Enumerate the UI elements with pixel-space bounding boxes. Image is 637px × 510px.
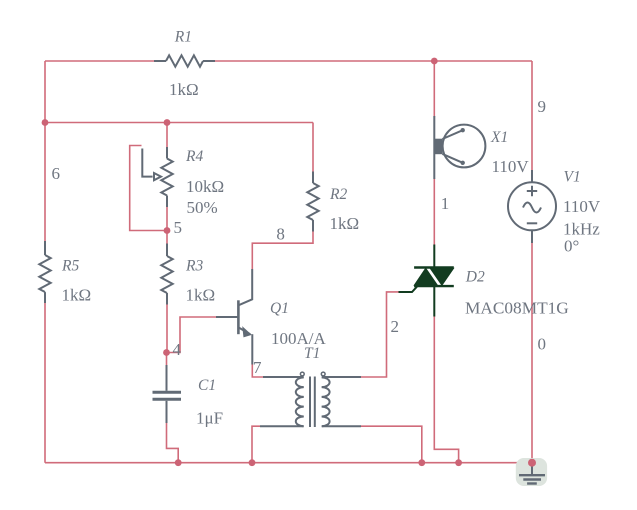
svg-text:T1: T1 [304,345,320,362]
wire C1 bottom to bus [167,422,179,463]
transformer T1 [260,372,361,427]
wire R4 wiper loop [130,146,167,231]
wire R2 top [312,123,314,173]
svg-text:R5: R5 [61,257,79,274]
wire R4 bottom to node 5 [166,206,168,231]
potentiometer R4 [142,147,172,207]
junction dot left rail y122.5 [42,119,49,126]
ground [516,458,547,486]
svg-text:1: 1 [441,194,450,213]
wire mid horizontal y122.5 [45,122,313,124]
junction dot R4 top [164,119,171,126]
wire node4 to Q1 base [167,317,218,353]
wire R3 bottom to node 4 [166,304,168,353]
svg-text:10kΩ: 10kΩ [186,177,224,196]
svg-text:R1: R1 [174,28,192,45]
wire bottom bus [45,462,532,464]
junction dot top bus lamp branch [431,58,438,65]
triac D2 [399,245,454,317]
svg-text:R3: R3 [185,257,203,274]
wire left vertical rail lower [44,302,46,463]
svg-text:D2: D2 [465,269,485,286]
wire R4 top [166,123,168,149]
svg-text:7: 7 [253,358,262,377]
svg-text:5: 5 [174,218,183,237]
svg-text:6: 6 [52,164,61,183]
junction dot bus ground [528,459,536,467]
wire V1 top drop [531,61,533,171]
svg-text:Q1: Q1 [270,300,289,317]
svg-text:4: 4 [173,340,182,359]
wire T1 secondary bottom to bus [361,426,422,463]
svg-text:R2: R2 [329,186,347,203]
junction dot bus triac [455,459,462,466]
wire left vertical rail upper [44,61,46,242]
svg-text:1kΩ: 1kΩ [62,285,92,304]
svg-text:1kΩ: 1kΩ [186,285,216,304]
svg-text:1μF: 1μF [196,409,223,428]
svg-text:110V: 110V [492,157,530,176]
resistor R5 [39,241,50,303]
ac source V1 [508,170,556,243]
wire T1 secondary top to triac gate (node 2) [360,292,399,377]
svg-text:1kΩ: 1kΩ [169,80,199,99]
junction node 5 [164,227,171,234]
wire R2 bottom to Q1 collector [252,231,313,269]
svg-text:R4: R4 [185,148,203,165]
svg-text:1kΩ: 1kΩ [330,214,360,233]
wire Q1 emitter to T1 primary top [252,364,263,377]
wire triac MT1 to bus [434,316,458,463]
svg-text:0: 0 [538,334,547,353]
resistor R2 [307,172,318,232]
svg-text:50%: 50% [187,198,218,217]
wire top bus right of R1 [214,60,532,62]
resistor R3 [161,244,172,305]
lamp X1 [434,116,486,179]
svg-text:8: 8 [276,225,285,244]
wire lamp to triac (node 1) [433,178,435,245]
junction node 4 [163,349,170,356]
svg-text:C1: C1 [198,377,216,394]
junction dot bus C1 [175,459,182,466]
svg-text:MAC08MT1G: MAC08MT1G [465,299,569,318]
junction dot bus T1 primary [249,459,256,466]
wire top bus left of R1 [45,60,154,62]
wire lamp branch top [433,61,435,117]
svg-text:9: 9 [538,97,547,116]
wire node5 to R3 [166,231,168,245]
wire T1 primary bottom to bus [252,426,260,463]
svg-text:0°: 0° [564,236,579,255]
svg-text:V1: V1 [564,169,581,186]
transistor Q1 [216,269,252,365]
svg-text:2: 2 [391,317,400,336]
capacitor C1 [153,365,182,423]
wire V1 bottom to ground [531,242,533,463]
svg-text:110V: 110V [563,197,601,216]
resistor R1 [154,55,215,66]
svg-text:X1: X1 [490,129,508,146]
wire node4 to C1 [166,353,168,367]
junction dot bus T1 secondary [418,459,425,466]
